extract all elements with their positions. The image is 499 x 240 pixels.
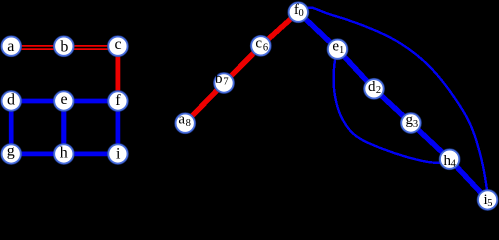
node i	[108, 144, 129, 165]
svg-text:5: 5	[487, 198, 492, 209]
wire edge d-g (blue)	[9, 101, 14, 154]
svg-text:a: a	[178, 111, 185, 127]
node a	[1, 36, 22, 57]
wire edge f-i (blue)	[116, 101, 121, 154]
node h4	[439, 149, 460, 170]
node b	[53, 36, 74, 57]
svg-text:0: 0	[298, 8, 303, 19]
wire edge g-h (blue)	[11, 152, 64, 157]
svg-text:7: 7	[223, 76, 228, 87]
svg-text:a: a	[7, 38, 14, 55]
node h	[53, 144, 74, 165]
svg-text:i: i	[116, 146, 121, 163]
wire edge e-h (blue)	[61, 101, 66, 154]
wire edge d-e (blue)	[11, 99, 64, 104]
wire edge g3-h4 (blue)	[411, 123, 450, 159]
node b7	[214, 71, 235, 93]
node g3	[401, 112, 422, 134]
svg-text:f: f	[115, 92, 121, 109]
wire edge a-b (double red)	[11, 46, 64, 49]
wire edge h-i (blue)	[64, 152, 118, 157]
wire edge e1-d2 (blue)	[338, 49, 375, 89]
node e	[53, 91, 74, 112]
node c	[108, 36, 129, 57]
svg-text:2: 2	[376, 85, 381, 96]
svg-text:8: 8	[186, 118, 191, 129]
node d	[1, 91, 22, 112]
wire edge a8-b7 (red)	[185, 83, 224, 123]
wire edge d2-g3 (blue)	[374, 89, 411, 123]
svg-text:h: h	[60, 145, 68, 162]
svg-text:3: 3	[413, 119, 418, 130]
node f0	[288, 2, 309, 23]
svg-text:6: 6	[263, 42, 268, 53]
node c6	[250, 35, 271, 56]
svg-text:b: b	[60, 38, 68, 55]
node g	[1, 143, 22, 165]
svg-text:4: 4	[451, 159, 457, 170]
wire edge h4-i5 (blue)	[450, 159, 488, 200]
wire edge b-c (double red)	[64, 46, 118, 49]
svg-text:d: d	[7, 92, 15, 109]
svg-text:c: c	[114, 36, 121, 53]
wire curve f0-i5 (blue arc right)	[305, 8, 488, 194]
svg-text:1: 1	[339, 45, 344, 56]
svg-text:g: g	[7, 143, 15, 160]
node a8	[175, 111, 196, 133]
wire curve e1-h4 (blue arc lower-left)	[334, 55, 445, 163]
svg-text:b: b	[215, 71, 223, 87]
wire edge b7-c6 (red)	[224, 46, 261, 83]
wire edge f0-e1 (blue)	[298, 12, 337, 49]
wire edge c6-f0 (red)	[261, 12, 299, 46]
svg-text:d: d	[368, 79, 376, 95]
wire edge e-f (blue)	[64, 99, 118, 104]
node i5	[477, 190, 498, 211]
svg-text:e: e	[60, 91, 67, 108]
node d2	[364, 78, 385, 99]
wire edge c-f (red)	[116, 46, 121, 101]
node f	[108, 91, 129, 112]
svg-text:c: c	[255, 36, 262, 52]
node e1	[327, 39, 348, 60]
